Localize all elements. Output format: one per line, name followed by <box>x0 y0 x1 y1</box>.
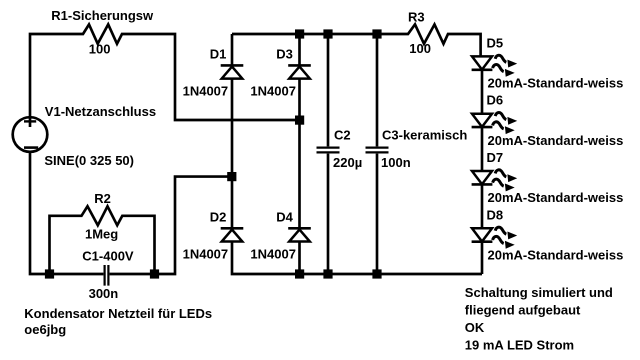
svg-text:D5: D5 <box>487 35 504 50</box>
svg-text:OK: OK <box>465 320 485 335</box>
svg-text:D6: D6 <box>487 93 504 108</box>
svg-text:20mA-Standard-weiss: 20mA-Standard-weiss <box>488 190 624 205</box>
svg-text:19 mA LED Strom: 19 mA LED Strom <box>465 338 574 353</box>
svg-text:100: 100 <box>89 42 111 57</box>
svg-text:1N4007: 1N4007 <box>183 83 229 98</box>
svg-text:D8: D8 <box>487 207 504 222</box>
svg-text:R3: R3 <box>408 10 425 25</box>
svg-text:C2: C2 <box>334 127 351 142</box>
svg-text:20mA-Standard-weiss: 20mA-Standard-weiss <box>488 76 624 91</box>
svg-text:1N4007: 1N4007 <box>250 83 296 98</box>
svg-text:20mA-Standard-weiss: 20mA-Standard-weiss <box>488 133 624 148</box>
svg-text:100: 100 <box>409 41 431 56</box>
svg-text:D1: D1 <box>210 47 227 62</box>
svg-text:1Meg: 1Meg <box>85 227 118 242</box>
svg-text:C3-keramisch: C3-keramisch <box>382 127 467 142</box>
svg-text:Kondensator Netzteil für LEDs: Kondensator Netzteil für LEDs <box>24 306 212 321</box>
svg-text:100n: 100n <box>381 155 411 170</box>
svg-text:C1-400V: C1-400V <box>82 248 134 263</box>
svg-text:220µ: 220µ <box>333 155 362 170</box>
svg-text:D7: D7 <box>487 150 504 165</box>
svg-text:1N4007: 1N4007 <box>183 247 229 262</box>
svg-text:D2: D2 <box>210 210 227 225</box>
svg-text:fliegend aufgebaut: fliegend aufgebaut <box>465 302 581 317</box>
svg-text:20mA-Standard-weiss: 20mA-Standard-weiss <box>488 247 624 262</box>
svg-text:oe6jbg: oe6jbg <box>24 322 66 337</box>
svg-text:1N4007: 1N4007 <box>250 247 296 262</box>
svg-text:D4: D4 <box>276 210 293 225</box>
svg-text:300n: 300n <box>89 286 119 301</box>
svg-text:SINE(0 325 50): SINE(0 325 50) <box>44 153 134 168</box>
svg-text:Schaltung simuliert und: Schaltung simuliert und <box>465 285 613 300</box>
svg-text:D3: D3 <box>276 47 293 62</box>
svg-text:V1-Netzanschluss: V1-Netzanschluss <box>45 104 156 119</box>
svg-text:R2: R2 <box>94 191 111 206</box>
svg-text:R1-Sicherungsw: R1-Sicherungsw <box>51 8 154 23</box>
